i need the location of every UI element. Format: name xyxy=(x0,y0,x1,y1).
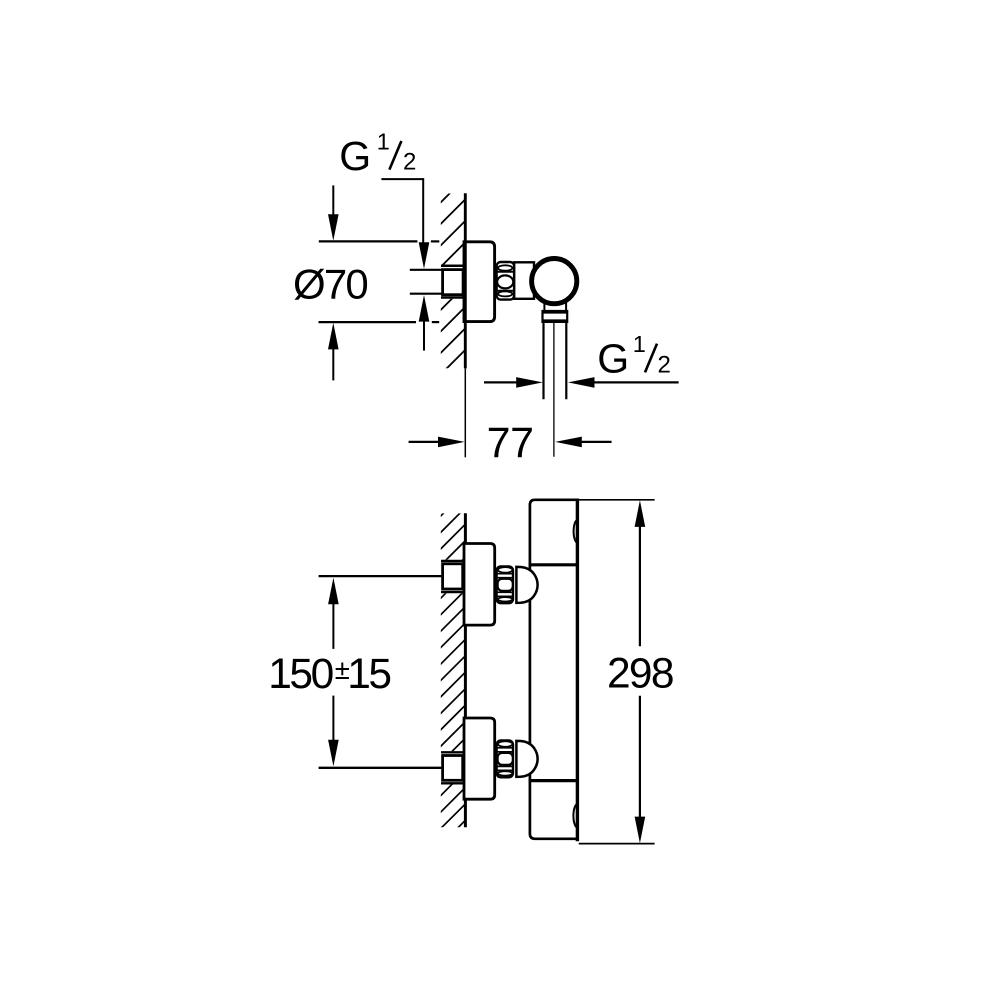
svg-text:G: G xyxy=(597,336,629,382)
svg-text:G: G xyxy=(339,133,371,179)
svg-text:2: 2 xyxy=(658,352,671,379)
svg-text:298: 298 xyxy=(607,650,673,697)
svg-text:1: 1 xyxy=(377,129,390,155)
svg-text:1: 1 xyxy=(633,331,646,357)
svg-text:77: 77 xyxy=(487,419,534,467)
svg-text:Ø70: Ø70 xyxy=(293,261,367,308)
svg-text:2: 2 xyxy=(403,148,416,175)
svg-text:150: 150 xyxy=(268,651,332,698)
svg-text:15: 15 xyxy=(347,651,390,698)
